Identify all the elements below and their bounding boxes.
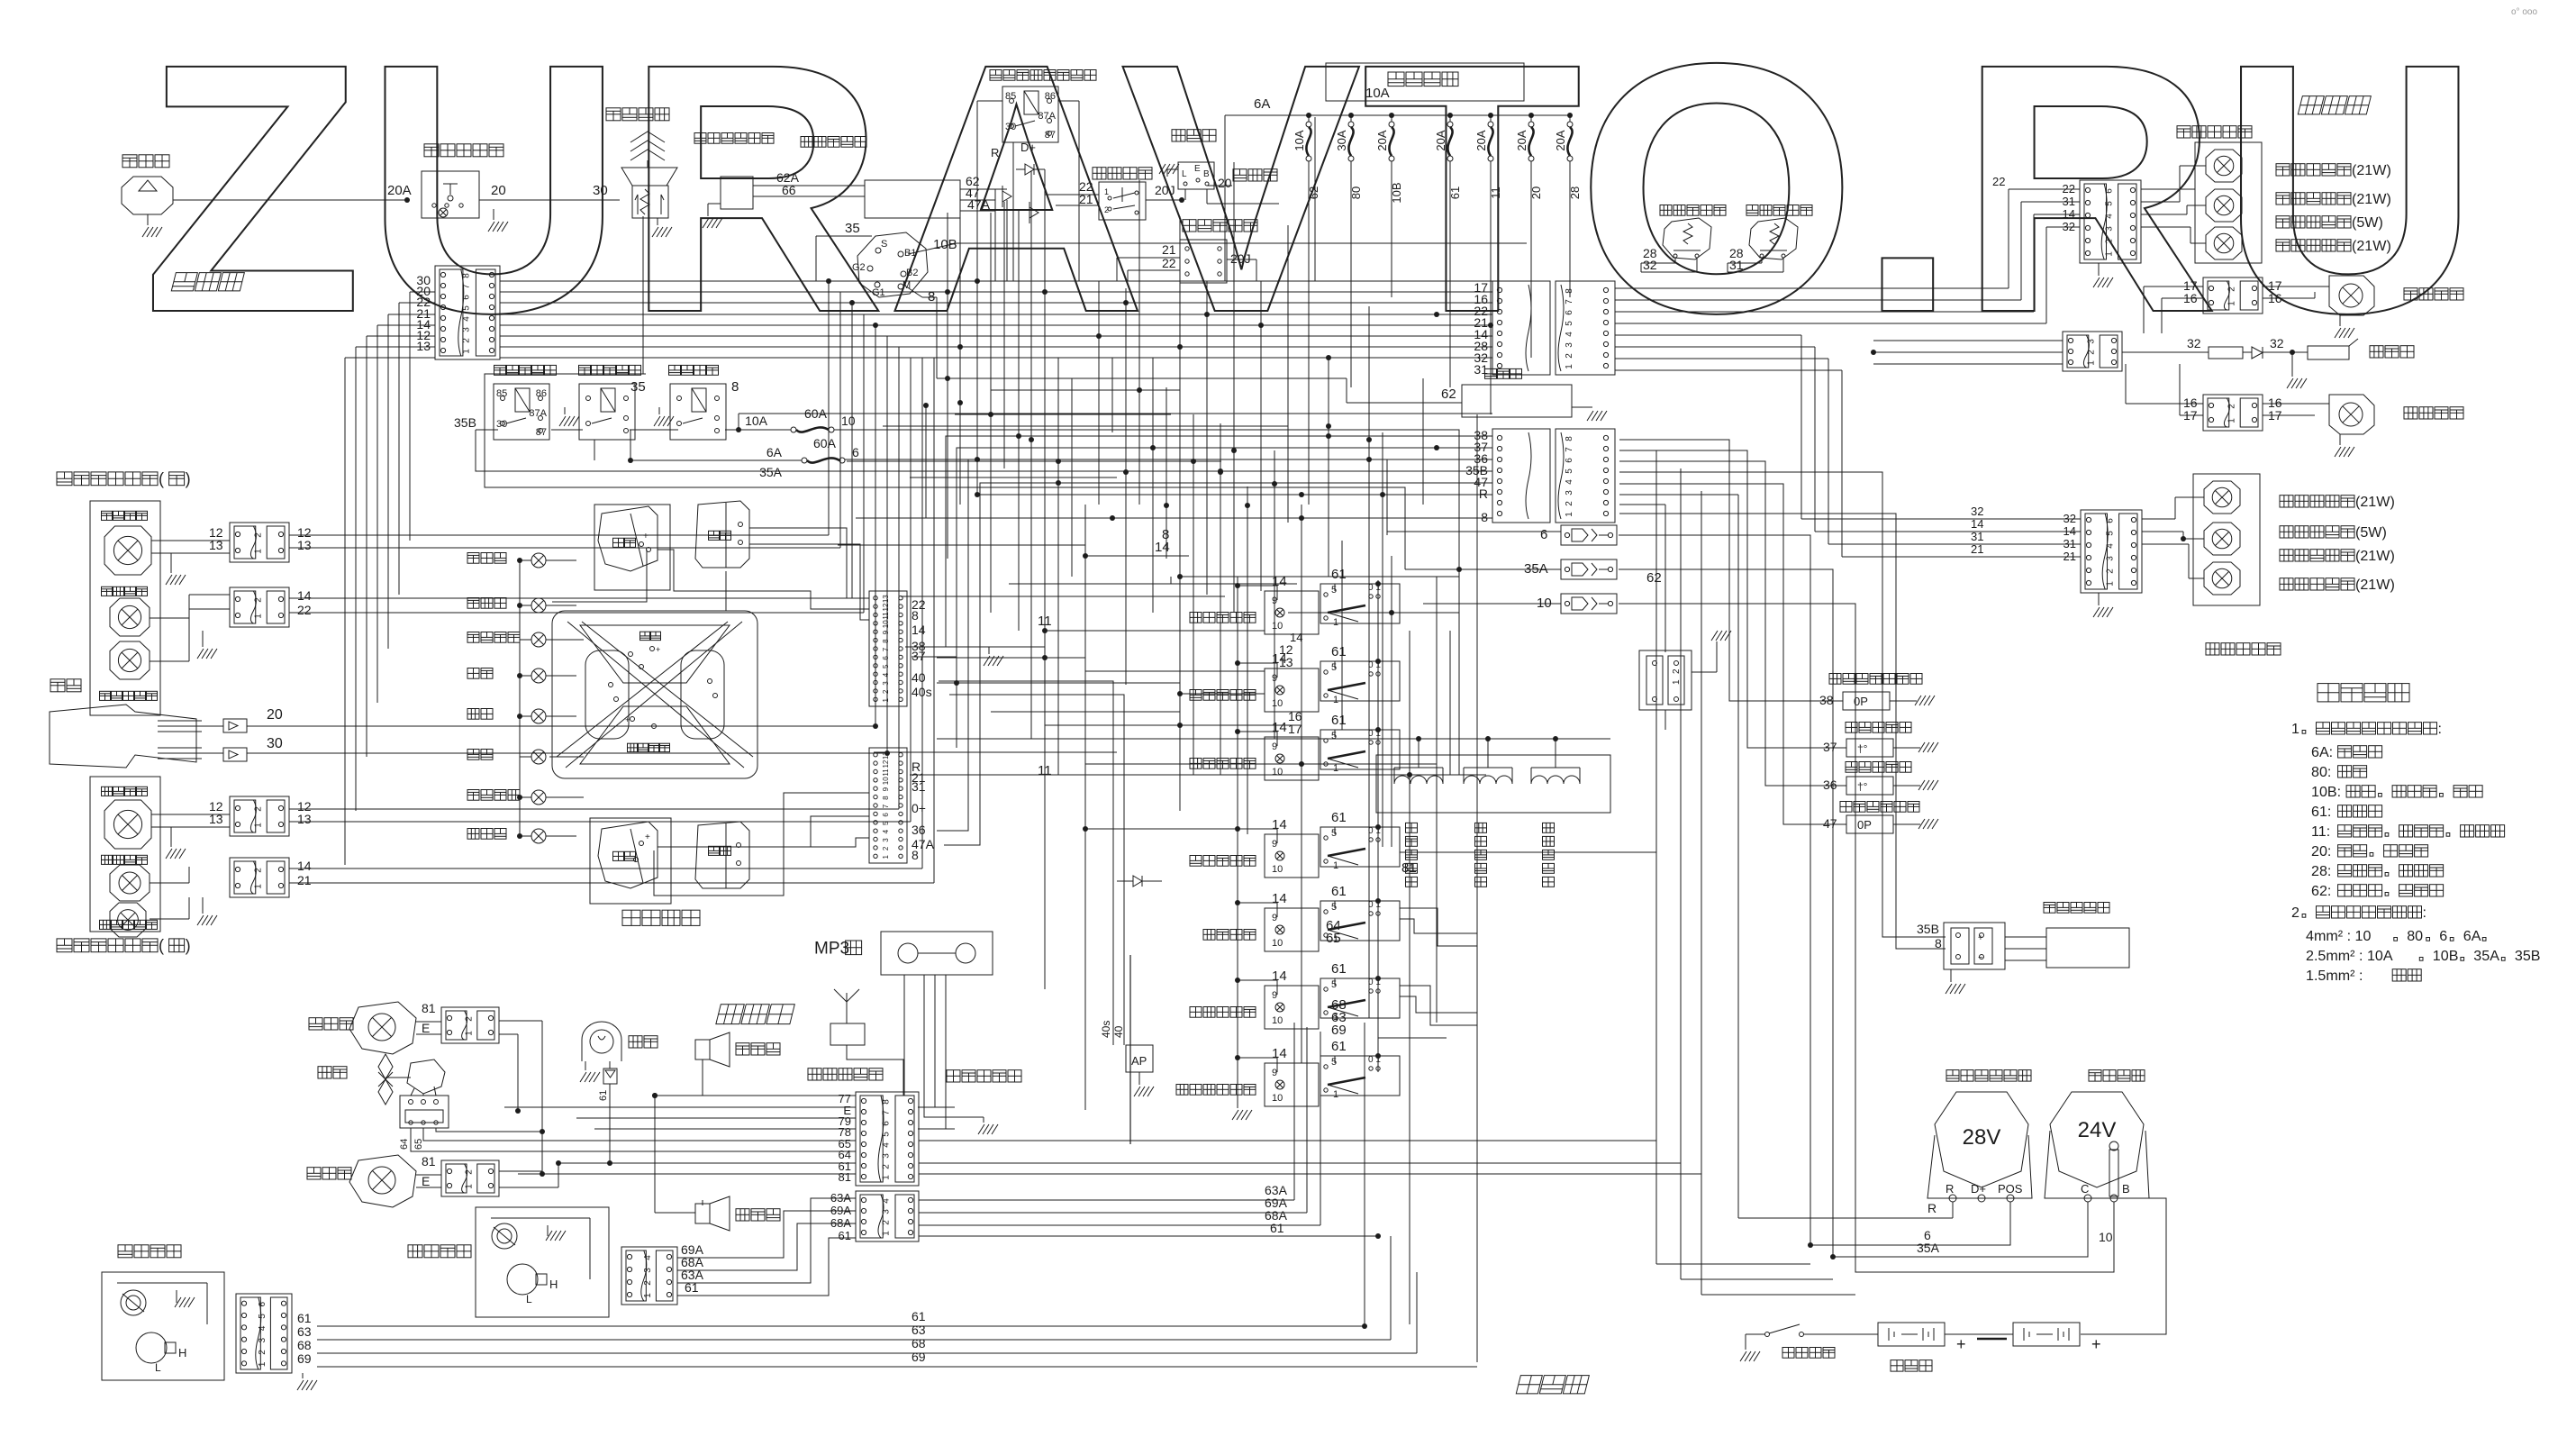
cigarette lighter <box>1485 368 1497 378</box>
svg-text:20A: 20A <box>1515 130 1528 150</box>
wire B to battery <box>2081 1198 2166 1334</box>
wire R to alternator <box>1619 494 1738 496</box>
front wiper connector <box>236 1294 292 1373</box>
svg-text:35B: 35B <box>454 415 476 430</box>
wire <box>1801 518 2081 520</box>
svg-text:32: 32 <box>2270 336 2284 350</box>
svg-text:9: 9 <box>1272 839 1277 850</box>
svg-text:(5W): (5W) <box>2352 214 2383 231</box>
oil temp sensor <box>1846 762 1857 773</box>
turn signal switch <box>1183 220 1196 232</box>
svg-text:R: R <box>1946 1182 1954 1196</box>
svg-text:AP: AP <box>1131 1054 1147 1068</box>
svg-text:(: ( <box>159 937 164 955</box>
svg-text:30: 30 <box>267 736 283 751</box>
svg-text:10: 10 <box>1272 864 1283 875</box>
svg-text:11: 11 <box>1038 763 1052 778</box>
solenoid valve labels <box>1406 823 1418 832</box>
front headlamp assembly right label <box>57 472 72 486</box>
svg-text:G1: G1 <box>872 287 885 298</box>
svg-text:13: 13 <box>297 812 312 826</box>
svg-text:65: 65 <box>1326 931 1341 946</box>
wire 47 <box>944 483 1492 845</box>
indicator lamp <box>531 750 546 764</box>
svg-text:61: 61 <box>1331 713 1347 728</box>
connector <box>230 858 289 897</box>
svg-text:64: 64 <box>399 1139 410 1150</box>
3-pin connector right <box>2063 332 2122 371</box>
svg-text:+: + <box>656 645 660 654</box>
junction dots band1 <box>975 278 980 284</box>
battery 2 <box>2013 1323 2080 1346</box>
svg-text:14: 14 <box>1272 1046 1287 1061</box>
ground <box>175 1297 181 1307</box>
fan <box>318 1067 331 1078</box>
svg-text:61: 61 <box>1270 1221 1284 1235</box>
svg-text:5: 5 <box>258 1314 268 1319</box>
svg-text:20A: 20A <box>1554 130 1567 150</box>
air pressure sensor <box>939 681 1113 1045</box>
svg-text:(21W): (21W) <box>2355 548 2395 564</box>
wire 35A <box>802 487 1405 569</box>
svg-text:10A: 10A <box>1293 130 1306 150</box>
svg-text:1: 1 <box>253 549 263 554</box>
pilot valve connector <box>1639 650 1692 710</box>
svg-text:10: 10 <box>841 414 856 428</box>
svg-text:40s: 40s <box>1100 1021 1112 1038</box>
svg-text:2: 2 <box>253 868 263 873</box>
right rear connector <box>2080 180 2141 263</box>
svg-text:L: L <box>155 1361 161 1374</box>
svg-text:14: 14 <box>1272 817 1287 832</box>
svg-text:3: 3 <box>258 1337 268 1342</box>
svg-text:31: 31 <box>912 779 926 794</box>
battery 1 <box>1878 1323 1945 1346</box>
svg-text:9: 9 <box>1272 596 1277 606</box>
wire 37 <box>912 448 1492 657</box>
indicator lamp <box>531 632 546 647</box>
svg-text:E: E <box>422 1174 430 1188</box>
ground <box>1587 411 1593 421</box>
svg-text:1: 1 <box>882 698 890 703</box>
svg-text:20A: 20A <box>387 183 412 198</box>
wire 36 <box>937 459 1492 831</box>
svg-text:1: 1 <box>2227 418 2236 423</box>
svg-text:1: 1 <box>464 1184 474 1189</box>
svg-text::: : <box>2423 905 2426 921</box>
svg-text:68: 68 <box>297 1338 312 1352</box>
svg-text:35A: 35A <box>759 465 783 479</box>
warning switch <box>1093 168 1106 179</box>
svg-text:10: 10 <box>1272 938 1283 949</box>
wire <box>994 189 996 281</box>
svg-text:7: 7 <box>1565 447 1574 452</box>
svg-text:35B: 35B <box>1917 922 1939 936</box>
wire 35B <box>476 430 1492 471</box>
start relay <box>579 365 591 375</box>
svg-text:5: 5 <box>1331 902 1337 913</box>
svg-text:3: 3 <box>643 1268 653 1273</box>
svg-text:5: 5 <box>1565 468 1574 474</box>
dome lamp <box>582 1022 621 1061</box>
svg-text:10: 10 <box>1272 698 1283 709</box>
front frame label <box>171 273 244 291</box>
svg-text:3: 3 <box>882 838 890 842</box>
indicator lamp <box>531 709 546 723</box>
svg-text:1: 1 <box>1333 695 1338 705</box>
ground <box>1918 742 1925 752</box>
svg-text:12: 12 <box>882 603 890 611</box>
antenna <box>846 993 848 1023</box>
knife switch <box>1782 1348 1794 1359</box>
svg-text:8: 8 <box>1162 527 1169 542</box>
indicator lamp <box>531 668 546 683</box>
svg-text:14: 14 <box>1272 969 1287 984</box>
svg-text:0P: 0P <box>1857 818 1872 832</box>
svg-text:61: 61 <box>598 1090 609 1101</box>
junction dots band2 <box>1016 433 1021 439</box>
svg-text:14: 14 <box>297 859 312 873</box>
wire 35B to fuel valve <box>1619 472 1946 937</box>
cab connector 4pin <box>856 1191 919 1241</box>
svg-text:8: 8 <box>1565 436 1574 441</box>
wire 8 to fuel valve <box>1619 514 1946 949</box>
wires cab connector east <box>919 1140 1656 1141</box>
ground <box>703 218 709 228</box>
svg-text:32: 32 <box>1643 258 1657 272</box>
svg-text:2: 2 <box>464 1016 474 1022</box>
diode <box>1133 876 1142 887</box>
ground <box>1946 984 1952 994</box>
svg-text:(5W): (5W) <box>2355 524 2387 541</box>
extra mesh lines <box>1180 576 1459 577</box>
svg-text:13: 13 <box>209 812 223 826</box>
svg-text:80: 80 <box>2407 928 2423 944</box>
ground <box>1237 1072 1238 1108</box>
svg-text:13: 13 <box>297 538 312 552</box>
svg-text:5: 5 <box>1331 1057 1337 1068</box>
svg-text:(21W): (21W) <box>2355 494 2395 510</box>
svg-text:17: 17 <box>1288 722 1302 736</box>
svg-text:B2: B2 <box>906 268 918 278</box>
svg-text:87A: 87A <box>529 408 547 419</box>
svg-text:61: 61 <box>297 1311 312 1325</box>
gearbox oil pressure switch <box>1840 802 1852 813</box>
svg-text:13: 13 <box>416 339 431 353</box>
horn <box>50 679 65 692</box>
cluster wires <box>658 550 869 609</box>
svg-text:B: B <box>2122 1182 2130 1196</box>
svg-text:40: 40 <box>912 670 926 685</box>
svg-text:38: 38 <box>1819 693 1834 707</box>
svg-text:21: 21 <box>1971 542 1983 556</box>
svg-text:8: 8 <box>1481 510 1488 524</box>
svg-text:+: + <box>645 832 650 842</box>
wire 81 <box>1400 841 1656 852</box>
svg-text:8: 8 <box>882 796 890 800</box>
svg-text:6: 6 <box>882 656 890 660</box>
svg-text:D+: D+ <box>1971 1182 1986 1196</box>
svg-text:6: 6 <box>882 813 890 817</box>
svg-text:14: 14 <box>1272 720 1287 735</box>
svg-text:30: 30 <box>1005 122 1016 132</box>
ground <box>2093 277 2100 287</box>
svg-text:14: 14 <box>912 623 926 637</box>
svg-text:21: 21 <box>1079 192 1093 206</box>
svg-text:20J: 20J <box>1155 183 1175 197</box>
svg-text:3: 3 <box>2105 556 2115 561</box>
ground <box>147 214 149 225</box>
svg-text:5: 5 <box>2105 531 2115 536</box>
svg-text:62: 62 <box>1646 570 1662 586</box>
svg-text:7: 7 <box>882 804 890 808</box>
svg-text:61: 61 <box>1331 567 1347 582</box>
svg-text:66: 66 <box>782 183 796 197</box>
wire 35A to C <box>1619 569 2088 1257</box>
instrument cluster <box>467 553 479 564</box>
svg-text:85: 85 <box>1005 91 1016 102</box>
svg-text:36: 36 <box>912 823 926 837</box>
front wiper <box>118 1245 132 1258</box>
left rear combo connector <box>2081 510 2142 593</box>
svg-text:1: 1 <box>1333 617 1338 628</box>
fuse 20A net 61 <box>1447 113 1453 118</box>
svg-text:2: 2 <box>882 846 890 850</box>
svg-text:3: 3 <box>461 327 471 332</box>
前照灯开关 <box>1190 690 1202 701</box>
connector 61 <box>603 1069 617 1084</box>
washer pump <box>122 177 173 214</box>
svg-text:3: 3 <box>881 1153 891 1159</box>
indicator lamp <box>531 598 546 613</box>
separator <box>1129 955 1131 1144</box>
svg-text:14: 14 <box>1971 517 1983 531</box>
svg-text:9: 9 <box>1272 673 1277 684</box>
svg-text:4: 4 <box>1565 479 1574 485</box>
cab connector <box>856 1092 919 1186</box>
svg-text:20:: 20: <box>2311 843 2331 859</box>
svg-text:1: 1 <box>253 884 263 889</box>
svg-text:10: 10 <box>882 777 890 785</box>
voltage gauge <box>695 501 749 568</box>
svg-text:81: 81 <box>1401 860 1417 876</box>
svg-text:+: + <box>1956 1335 1966 1353</box>
wire R <box>1737 495 1739 1218</box>
svg-text:†°: †° <box>1857 742 1868 755</box>
svg-text:47A: 47A <box>967 197 991 212</box>
svg-text:4: 4 <box>461 316 471 322</box>
svg-text:1: 1 <box>881 1231 891 1236</box>
svg-text:5: 5 <box>1331 585 1337 596</box>
delay relay <box>801 137 812 148</box>
svg-text:2.5mm² : 10A: 2.5mm² : 10A <box>2306 948 2393 964</box>
svg-text:2: 2 <box>1672 668 1682 674</box>
svg-text:9: 9 <box>1272 1068 1277 1078</box>
rear frame label <box>2298 96 2371 114</box>
svg-text:2: 2 <box>253 532 263 538</box>
svg-text:14: 14 <box>297 588 312 603</box>
svg-text:8: 8 <box>1565 288 1574 294</box>
switch column rail 61 <box>1377 580 1379 1072</box>
工作灯开关 <box>1190 856 1202 867</box>
technical requirements <box>2317 684 2339 702</box>
svg-text:): ) <box>186 470 191 488</box>
start switch <box>857 232 928 297</box>
ground <box>657 218 658 225</box>
svg-text:1: 1 <box>464 1031 474 1036</box>
wire bus front-frame to cab <box>500 280 1492 282</box>
svg-text:80:: 80: <box>2311 764 2331 780</box>
fuse 20A net 28 <box>1567 113 1573 118</box>
svg-text:37: 37 <box>1823 740 1837 754</box>
svg-text:6: 6 <box>852 445 859 459</box>
svg-text:7: 7 <box>882 647 890 651</box>
svg-text:1: 1 <box>882 855 890 859</box>
svg-text:1.5mm² :: 1.5mm² : <box>2306 968 2363 984</box>
svg-text:L: L <box>1182 169 1187 179</box>
svg-text:61: 61 <box>839 1229 851 1242</box>
work lamp 2 <box>307 1168 321 1179</box>
left rear lamp box <box>2193 474 2260 605</box>
water temp sensor <box>1846 723 1857 733</box>
center wire mesh horizontals <box>937 377 1347 379</box>
svg-text:5: 5 <box>882 821 890 825</box>
svg-text:35B: 35B <box>2515 948 2541 964</box>
svg-text:D+: D+ <box>1020 141 1036 154</box>
wire 6 to POS <box>1619 535 2010 1245</box>
svg-text:8: 8 <box>912 608 919 623</box>
wire 38 to oil pressure sensor <box>1619 440 1843 701</box>
svg-text:1: 1 <box>1333 1089 1338 1100</box>
right headlamp box <box>90 501 160 715</box>
lamp labels <box>2276 164 2290 176</box>
ground <box>1740 1351 1746 1361</box>
starter <box>2089 1070 2101 1082</box>
svg-text:~: ~ <box>1978 953 1983 963</box>
svg-text:2: 2 <box>2104 239 2114 244</box>
svg-text:R: R <box>991 146 999 159</box>
svg-text:87: 87 <box>1045 130 1056 141</box>
connector <box>230 587 289 627</box>
cluster X block <box>552 611 757 778</box>
svg-text:61: 61 <box>685 1280 699 1295</box>
center wire mesh verticals <box>947 213 948 559</box>
svg-text:10: 10 <box>882 620 890 628</box>
svg-text:2: 2 <box>1565 353 1574 359</box>
svg-text:2: 2 <box>2105 568 2115 574</box>
solenoid switch <box>669 365 681 375</box>
svg-text:40s: 40s <box>912 685 932 699</box>
svg-text:6: 6 <box>461 295 471 300</box>
svg-text:10: 10 <box>2099 1230 2113 1244</box>
svg-text:7: 7 <box>1565 299 1574 305</box>
svg-text:10: 10 <box>1537 596 1552 611</box>
ground <box>1134 1087 1140 1096</box>
wire 10 to B <box>1619 604 2114 1272</box>
svg-text:S: S <box>881 239 887 250</box>
svg-text:21: 21 <box>297 873 312 887</box>
svg-text:+: + <box>625 715 630 724</box>
charge indicator lamp relay <box>990 70 1002 81</box>
刹车灯开关 <box>1746 205 1758 216</box>
svg-text:11:: 11: <box>2311 823 2330 840</box>
svg-text:R: R <box>1479 487 1488 501</box>
ground <box>1159 164 1166 174</box>
svg-text:5: 5 <box>1331 731 1337 741</box>
svg-text:36: 36 <box>1823 778 1837 792</box>
svg-text:1: 1 <box>1104 187 1109 196</box>
svg-text:31: 31 <box>1971 530 1983 543</box>
svg-text:): ) <box>186 937 191 955</box>
svg-text:+: + <box>2091 1335 2101 1353</box>
svg-text:+: + <box>643 532 649 541</box>
right rear combo lamp label <box>2177 126 2191 138</box>
svg-text:24V: 24V <box>2078 1118 2117 1142</box>
svg-text:8: 8 <box>882 639 890 643</box>
wires 4pin east <box>919 1199 1294 1201</box>
svg-text:4: 4 <box>882 829 890 833</box>
svg-text:22: 22 <box>297 603 312 617</box>
ground <box>580 1072 586 1082</box>
svg-text:1: 1 <box>1333 763 1338 774</box>
svg-text:13: 13 <box>1279 655 1293 669</box>
svg-text:1: 1 <box>1565 512 1574 517</box>
svg-text:(21W): (21W) <box>2352 162 2391 178</box>
svg-text:61: 61 <box>1331 884 1347 899</box>
band right of connector1 <box>1615 287 2009 289</box>
svg-text:1: 1 <box>2291 721 2299 737</box>
cluster label <box>622 910 640 925</box>
svg-text:35A: 35A <box>2473 948 2499 964</box>
svg-text:o° ooo: o° ooo <box>2511 7 2537 17</box>
water temp gauge <box>590 818 671 904</box>
fuse 20A net 11 <box>1488 113 1493 118</box>
svg-text:1: 1 <box>253 823 263 828</box>
svg-text:6: 6 <box>2439 928 2447 944</box>
svg-text:(21W): (21W) <box>2355 577 2395 593</box>
svg-text:22: 22 <box>1992 175 2005 188</box>
svg-text:4: 4 <box>258 1325 268 1331</box>
wire 64 65 <box>1400 919 1477 933</box>
svg-text:5: 5 <box>2104 201 2114 206</box>
ground <box>1915 696 1921 705</box>
svg-text:C: C <box>2081 1182 2089 1196</box>
svg-text:2: 2 <box>464 1169 474 1175</box>
仪表灯开关 <box>1190 613 1202 623</box>
svg-text:G2: G2 <box>852 262 866 273</box>
svg-text:30: 30 <box>593 183 608 198</box>
svg-text:E: E <box>1194 164 1201 174</box>
right speaker <box>695 1040 710 1059</box>
fuel solenoid valve <box>2044 903 2055 914</box>
svg-text:37: 37 <box>912 649 926 663</box>
svg-text:11: 11 <box>882 768 890 777</box>
svg-text:8: 8 <box>912 848 919 862</box>
horn button <box>606 108 621 121</box>
svg-text:11: 11 <box>882 612 890 620</box>
svg-text:H: H <box>178 1346 186 1360</box>
svg-text:20A: 20A <box>1434 130 1447 150</box>
svg-text:20J: 20J <box>1230 251 1251 266</box>
ground <box>202 631 204 647</box>
svg-text:10: 10 <box>1272 621 1283 632</box>
svg-text:8: 8 <box>1935 936 1942 950</box>
svg-text:POS: POS <box>1998 1182 2023 1196</box>
svg-text:9: 9 <box>882 787 890 791</box>
fuse 10A net 62 <box>1306 113 1311 118</box>
雨刮器开关 <box>1190 1007 1202 1018</box>
wire <box>1308 205 1310 505</box>
